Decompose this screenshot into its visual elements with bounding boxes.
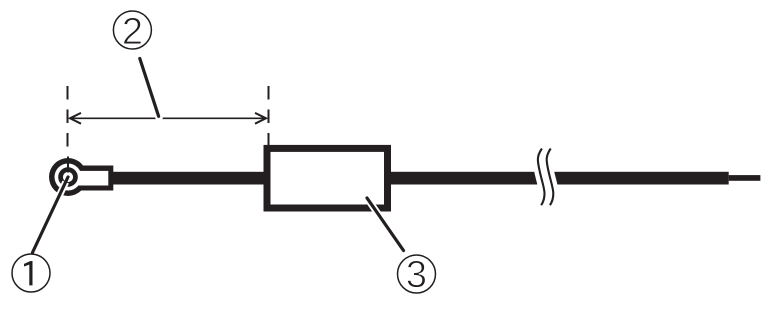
callout balloon 2: [113, 11, 151, 53]
extension line left (dashed): [67, 86, 69, 147]
cable break symbol right curve: [547, 149, 554, 206]
extension line right (dashed): [268, 86, 270, 147]
wire (thin stripped end at right): [729, 175, 761, 181]
dimension line (double-headed arrow for callout 2): [70, 113, 266, 124]
callout balloon 3: [398, 254, 436, 296]
leader line for callout 2: [140, 59, 160, 120]
svg-text:3: 3: [406, 254, 427, 296]
ring terminal inner ring: [61, 170, 76, 185]
svg-text:2: 2: [122, 11, 143, 53]
leader line for callout 1: [33, 177, 69, 253]
cable break symbol (white band): [542, 149, 549, 206]
ring terminal (component 1) outer body: [49, 158, 113, 196]
leader line for callout 3: [367, 198, 404, 251]
extension line left (last dash over terminal): [67, 157, 69, 173]
wire (main cable run): [108, 172, 729, 185]
callout balloon 1: [12, 254, 50, 292]
cable break symbol left curve: [538, 149, 545, 206]
ring terminal center hole: [63, 172, 73, 182]
component box (component 3): [267, 148, 388, 208]
